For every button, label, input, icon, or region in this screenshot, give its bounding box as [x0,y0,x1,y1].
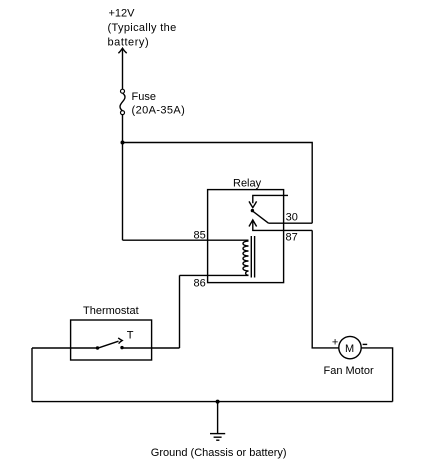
wire left riser [31,348,33,402]
node ground junction [216,400,220,404]
wire 86 to thermostat [179,275,181,348]
wire pin 85 [123,239,249,241]
wire pin 87 [253,221,312,231]
relay switch pivot [251,209,254,212]
svg-text:+: + [332,337,338,349]
wire pin 86 [180,274,249,276]
wire bottom rail [32,401,393,403]
thermostat blade arrow [118,338,122,344]
svg-text:87: 87 [286,232,298,244]
relay switch common wire [253,195,288,203]
svg-text:(Typically the: (Typically the [108,22,177,34]
relay switch arrow up [249,220,257,227]
wire fuse to 85 rail [122,115,124,241]
wire left to thermostat [32,347,98,349]
svg-text:85: 85 [194,230,206,242]
svg-text:M: M [345,343,354,355]
node junction fuse/top-rail [121,141,125,145]
thermostat contact right [120,346,123,349]
relay body [208,190,284,283]
node +12V label [108,8,177,49]
svg-text:Fuse: Fuse [132,91,156,103]
svg-text:(20A-35A): (20A-35A) [132,105,186,117]
svg-text:Fan Motor: Fan Motor [324,365,374,377]
thermostat blade [98,341,119,348]
svg-text:Ground (Chassis or battery): Ground (Chassis or battery) [151,447,287,459]
thermostat contact left [96,346,99,349]
svg-text:T: T [127,330,134,342]
wire pin 30 [269,222,313,224]
relay coil core bars [251,236,254,278]
arrow to +12V supply [118,48,126,89]
svg-text:86: 86 [194,278,206,290]
fuse F1 [120,89,125,114]
thermostat body [71,320,152,360]
ground [210,402,225,441]
motor M1 [339,336,361,358]
fuse label [132,91,186,117]
relay coil L1 [243,241,248,275]
svg-text:30: 30 [286,211,298,223]
wire thermostat to 86 riser [122,347,180,349]
wire motor to bottom rail [361,348,392,402]
wire top rail to pin 30 [123,143,313,224]
svg-text:Thermostat: Thermostat [83,305,139,317]
relay switch blade [253,211,269,223]
relay switch arrow down [249,201,257,207]
svg-text:battery): battery) [108,37,150,49]
wire 87 to motor [312,230,339,348]
svg-text:+12V: +12V [109,8,136,20]
motor minus terminal label [363,343,368,345]
svg-text:Relay: Relay [233,178,262,190]
